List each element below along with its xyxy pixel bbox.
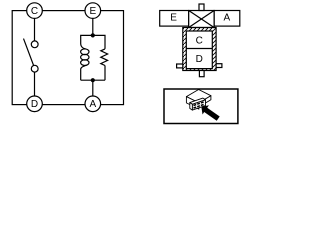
svg-text:C: C <box>196 35 203 46</box>
resistor zigzag <box>101 49 108 66</box>
svg-text:A: A <box>223 12 230 23</box>
connector housing hatched wall <box>183 28 216 71</box>
housing right tab <box>216 64 222 68</box>
top tab on keyway <box>199 4 204 11</box>
switch upper contact <box>31 41 38 48</box>
terminal A <box>85 96 101 112</box>
relay socket pin holes row 1 <box>194 102 204 106</box>
wire from C to switch upper contact <box>34 18 36 41</box>
wire from E to node <box>92 18 94 35</box>
relay socket pin face <box>192 100 205 110</box>
relay body left face <box>186 97 199 110</box>
switch lower contact <box>31 65 38 72</box>
relay socket left face <box>190 103 193 111</box>
wire node to A <box>92 80 94 96</box>
bottom rail of parallel branch <box>81 79 105 81</box>
inductor coil exit hook <box>81 65 87 69</box>
svg-text:D: D <box>31 99 38 110</box>
pointer arrow <box>201 105 219 120</box>
wire resistor bottom to rail <box>104 66 106 81</box>
pin cell E box <box>160 11 189 27</box>
inductor coil loop 1 <box>81 49 89 55</box>
keyway diagonal 2 <box>189 11 214 28</box>
inductor coil loop 3 <box>81 60 89 66</box>
inductor coil entry hook <box>81 44 86 49</box>
svg-text:D: D <box>196 54 203 65</box>
switch blade <box>24 39 34 66</box>
inductor coil loop 2 <box>81 54 89 60</box>
relay socket pin holes row 2 <box>194 105 204 109</box>
svg-text:E: E <box>89 6 96 17</box>
wire inductor bottom to rail <box>80 69 82 81</box>
keyway diagonal 1 <box>189 11 214 28</box>
relay body top face <box>186 90 211 103</box>
svg-text:E: E <box>170 12 177 23</box>
pin cell A box <box>214 11 240 27</box>
wire from switch lower contact to D <box>34 72 36 96</box>
relay body right face <box>199 96 211 107</box>
relay socket top face <box>190 98 206 104</box>
housing bottom tab <box>199 71 204 77</box>
cavity divider <box>186 48 212 50</box>
node junction upper <box>91 33 95 37</box>
circuit outline box <box>12 11 123 105</box>
housing inner cavity <box>186 31 212 69</box>
top rail of parallel branch <box>81 35 105 49</box>
terminal C <box>27 3 43 19</box>
svg-text:A: A <box>89 99 96 110</box>
terminal D <box>27 96 43 112</box>
housing left tab <box>177 64 183 68</box>
keyway crossed box <box>189 11 214 28</box>
terminal E <box>85 3 101 19</box>
svg-text:C: C <box>31 6 38 17</box>
node junction lower <box>91 78 95 82</box>
relay icon frame <box>164 89 238 124</box>
